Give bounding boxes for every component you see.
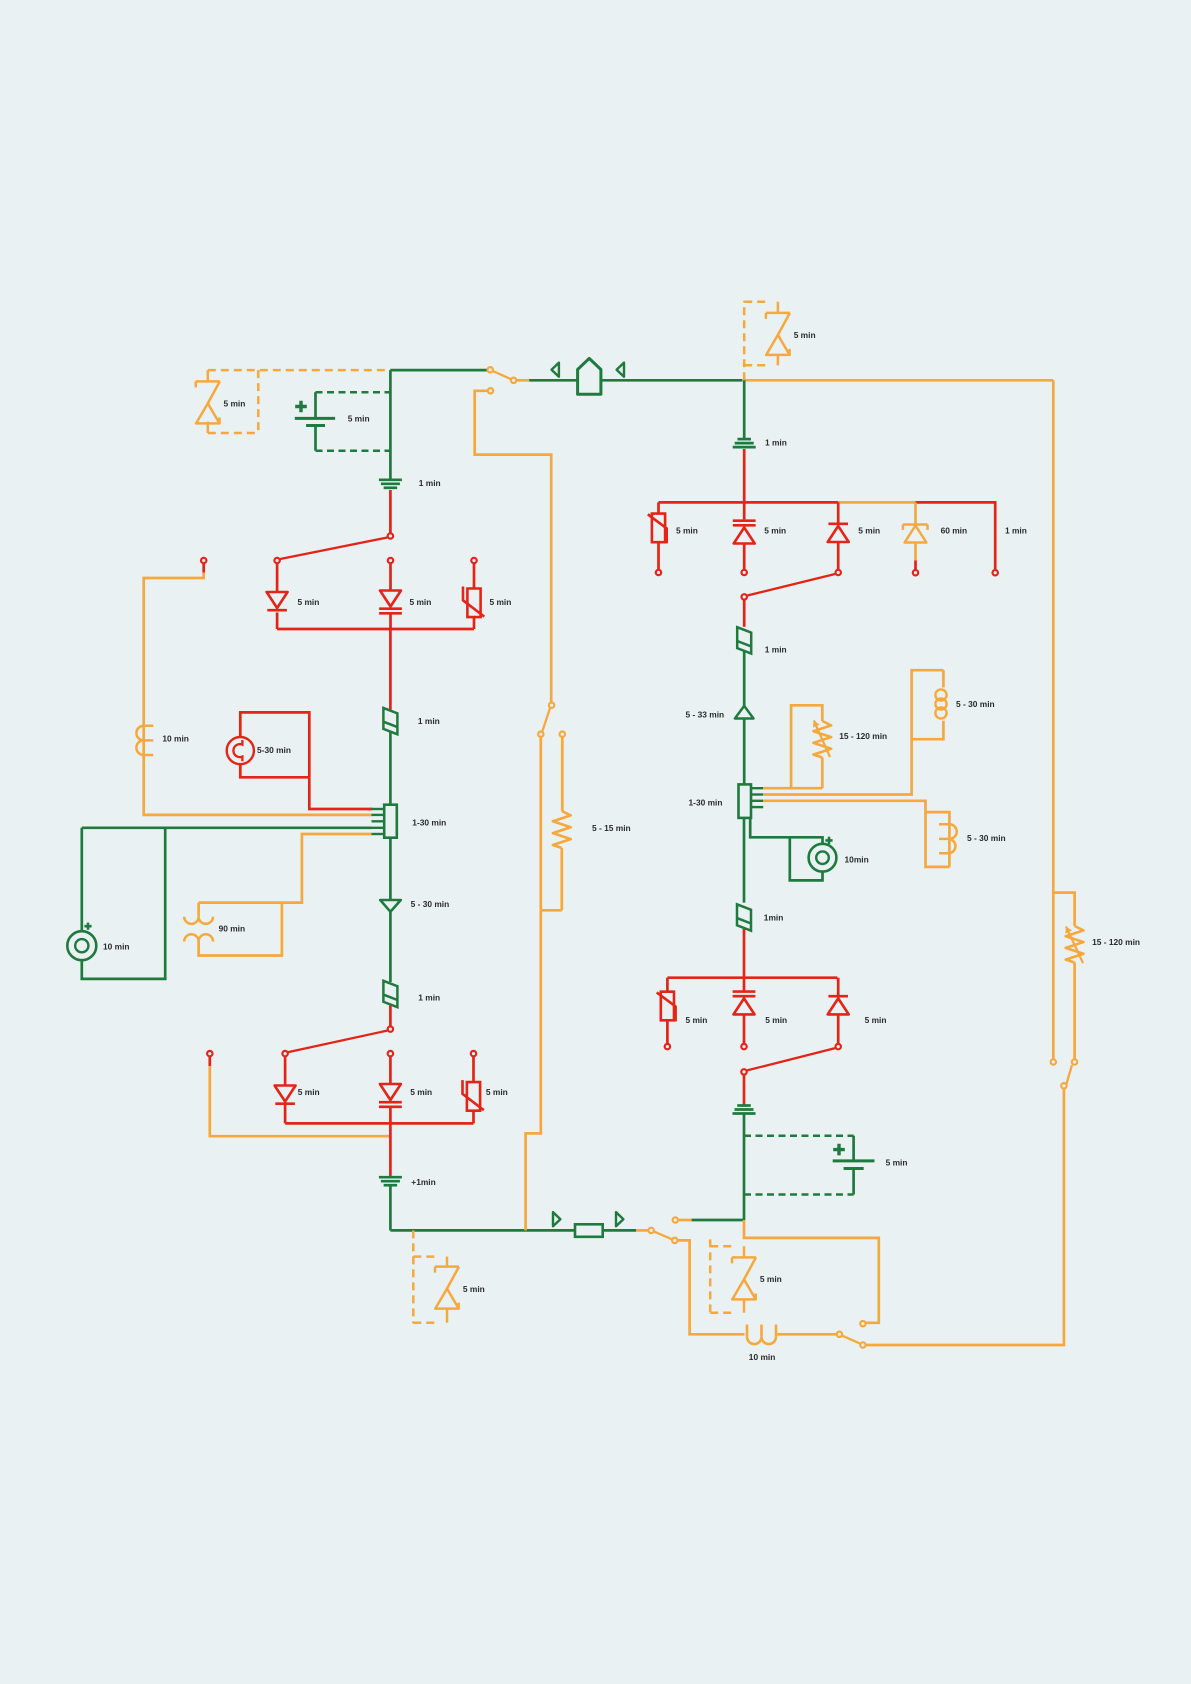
svg-text:5 min: 5 min bbox=[764, 526, 786, 536]
svg-text:5 min: 5 min bbox=[410, 1087, 432, 1097]
svg-text:1min: 1min bbox=[764, 913, 784, 923]
svg-text:5 - 30 min: 5 - 30 min bbox=[956, 699, 995, 709]
svg-text:5 min: 5 min bbox=[348, 413, 370, 423]
svg-text:5 min: 5 min bbox=[865, 1015, 887, 1025]
svg-text:15 - 120 min: 15 - 120 min bbox=[839, 731, 887, 741]
svg-text:1-30 min: 1-30 min bbox=[689, 798, 723, 808]
svg-text:5 - 30 min: 5 - 30 min bbox=[967, 833, 1006, 843]
svg-text:5-30 min: 5-30 min bbox=[257, 745, 291, 755]
svg-text:1 min: 1 min bbox=[1005, 526, 1027, 536]
svg-text:10 min: 10 min bbox=[103, 942, 130, 952]
svg-text:5 min: 5 min bbox=[486, 1087, 508, 1097]
svg-text:5 - 30 min: 5 - 30 min bbox=[411, 899, 450, 909]
svg-text:90 min: 90 min bbox=[219, 924, 246, 934]
svg-text:1 min: 1 min bbox=[419, 478, 441, 488]
svg-text:1 min: 1 min bbox=[418, 716, 440, 726]
svg-text:5 min: 5 min bbox=[410, 597, 432, 607]
svg-text:5 min: 5 min bbox=[686, 1015, 708, 1025]
svg-text:5 min: 5 min bbox=[760, 1274, 782, 1284]
svg-text:5 min: 5 min bbox=[298, 1087, 320, 1097]
svg-text:5 min: 5 min bbox=[794, 330, 816, 340]
svg-text:5 - 33 min: 5 - 33 min bbox=[686, 710, 725, 720]
svg-text:15 - 120 min: 15 - 120 min bbox=[1092, 937, 1140, 947]
svg-text:5 min: 5 min bbox=[463, 1284, 485, 1294]
svg-text:1 min: 1 min bbox=[765, 645, 787, 655]
svg-text:5 min: 5 min bbox=[224, 398, 246, 408]
svg-text:5 min: 5 min bbox=[858, 526, 880, 536]
svg-text:5 min: 5 min bbox=[490, 597, 512, 607]
svg-text:1 min: 1 min bbox=[418, 993, 440, 1003]
svg-text:1-30 min: 1-30 min bbox=[412, 818, 446, 828]
svg-text:5 min: 5 min bbox=[886, 1158, 908, 1168]
svg-text:+1min: +1min bbox=[411, 1177, 435, 1187]
svg-text:5 - 15 min: 5 - 15 min bbox=[592, 823, 631, 833]
svg-text:5 min: 5 min bbox=[765, 1015, 787, 1025]
svg-text:1 min: 1 min bbox=[765, 438, 787, 448]
svg-text:10 min: 10 min bbox=[749, 1352, 776, 1362]
svg-text:10min: 10min bbox=[845, 855, 869, 865]
svg-text:5 min: 5 min bbox=[676, 526, 698, 536]
svg-text:5 min: 5 min bbox=[298, 597, 320, 607]
svg-text:10 min: 10 min bbox=[162, 733, 189, 743]
svg-text:60 min: 60 min bbox=[941, 526, 968, 536]
